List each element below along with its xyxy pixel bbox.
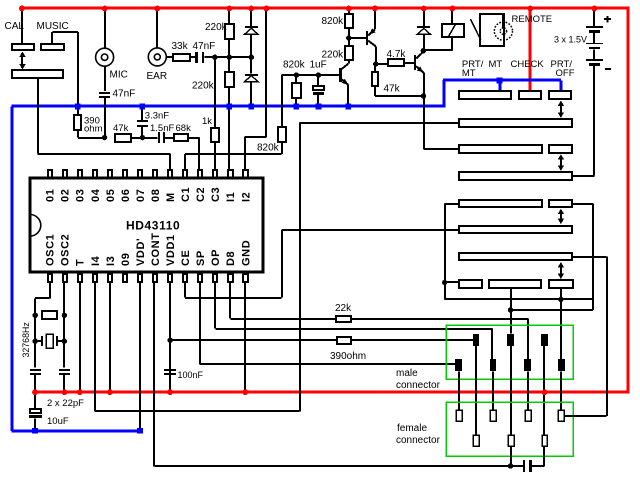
svg-text:CONT: CONT bbox=[150, 232, 162, 266]
svg-text:820k: 820k bbox=[283, 59, 306, 70]
svg-text:01: 01 bbox=[45, 189, 57, 202]
svg-text:1uF: 1uF bbox=[310, 59, 327, 70]
svg-text:OP: OP bbox=[210, 249, 222, 266]
svg-text:02: 02 bbox=[60, 189, 72, 202]
svg-text:VDD': VDD' bbox=[135, 238, 147, 266]
svg-text:MUSIC: MUSIC bbox=[37, 21, 69, 32]
svg-text:3 x 1.5V: 3 x 1.5V bbox=[554, 34, 587, 44]
svg-text:47k: 47k bbox=[113, 123, 129, 134]
svg-text:male: male bbox=[396, 368, 418, 379]
svg-text:M: M bbox=[165, 192, 177, 202]
svg-text:GND: GND bbox=[240, 240, 252, 266]
svg-text:SP: SP bbox=[195, 250, 207, 266]
svg-text:I3: I3 bbox=[105, 256, 117, 266]
svg-text:OSC1: OSC1 bbox=[45, 234, 57, 266]
svg-text:I1: I1 bbox=[225, 192, 237, 202]
svg-text:09: 09 bbox=[120, 253, 132, 266]
svg-text:100nF: 100nF bbox=[178, 370, 204, 380]
svg-text:1.5nF: 1.5nF bbox=[150, 123, 174, 134]
svg-text:07: 07 bbox=[135, 189, 147, 202]
svg-text:ohm: ohm bbox=[84, 124, 103, 135]
svg-text:47nF: 47nF bbox=[113, 89, 136, 100]
svg-text:CE: CE bbox=[180, 250, 192, 266]
svg-text:C3: C3 bbox=[210, 187, 222, 202]
svg-text:32768Hz: 32768Hz bbox=[21, 322, 31, 357]
svg-text:MT: MT bbox=[462, 68, 476, 79]
svg-text:OFF: OFF bbox=[556, 68, 575, 79]
svg-text:47nF: 47nF bbox=[193, 41, 216, 52]
svg-text:08: 08 bbox=[150, 189, 162, 202]
svg-text:connector: connector bbox=[396, 435, 441, 446]
svg-text:220k: 220k bbox=[192, 80, 215, 91]
svg-text:MIC: MIC bbox=[110, 70, 128, 81]
svg-text:68k: 68k bbox=[176, 123, 192, 134]
svg-text:4.7k: 4.7k bbox=[387, 49, 407, 60]
svg-text:MT: MT bbox=[489, 59, 503, 70]
svg-text:EAR: EAR bbox=[147, 71, 168, 82]
svg-text:C2: C2 bbox=[195, 187, 207, 202]
svg-text:OSC2: OSC2 bbox=[60, 234, 72, 266]
svg-text:10uF: 10uF bbox=[47, 416, 69, 427]
svg-text:CHECK: CHECK bbox=[511, 59, 545, 70]
svg-text:CAL: CAL bbox=[5, 21, 25, 32]
svg-text:04: 04 bbox=[90, 188, 102, 202]
svg-text:390ohm: 390ohm bbox=[330, 351, 366, 362]
svg-text:1k: 1k bbox=[202, 116, 212, 127]
svg-text:22k: 22k bbox=[335, 303, 352, 314]
svg-text:220k: 220k bbox=[322, 49, 345, 60]
svg-text:05: 05 bbox=[105, 189, 117, 202]
svg-text:HD43110: HD43110 bbox=[126, 219, 180, 233]
svg-text:33k: 33k bbox=[172, 41, 189, 52]
svg-text:820k: 820k bbox=[322, 16, 345, 27]
svg-text:C1: C1 bbox=[180, 187, 192, 202]
svg-text:T: T bbox=[75, 259, 87, 266]
svg-text:06: 06 bbox=[120, 189, 132, 202]
svg-text:I4: I4 bbox=[90, 255, 102, 266]
svg-text:03: 03 bbox=[75, 189, 87, 202]
svg-text:820k: 820k bbox=[257, 143, 280, 154]
svg-text:D8: D8 bbox=[225, 251, 237, 266]
svg-text:3.3nF: 3.3nF bbox=[145, 110, 169, 121]
svg-text:VDD1: VDD1 bbox=[165, 234, 177, 266]
svg-text:female: female bbox=[397, 423, 427, 434]
svg-text:connector: connector bbox=[396, 380, 441, 391]
svg-text:47k: 47k bbox=[384, 84, 401, 95]
svg-text:2 x 22pF: 2 x 22pF bbox=[47, 398, 84, 409]
svg-text:I2: I2 bbox=[240, 192, 252, 202]
svg-text:REMOTE: REMOTE bbox=[512, 14, 553, 25]
